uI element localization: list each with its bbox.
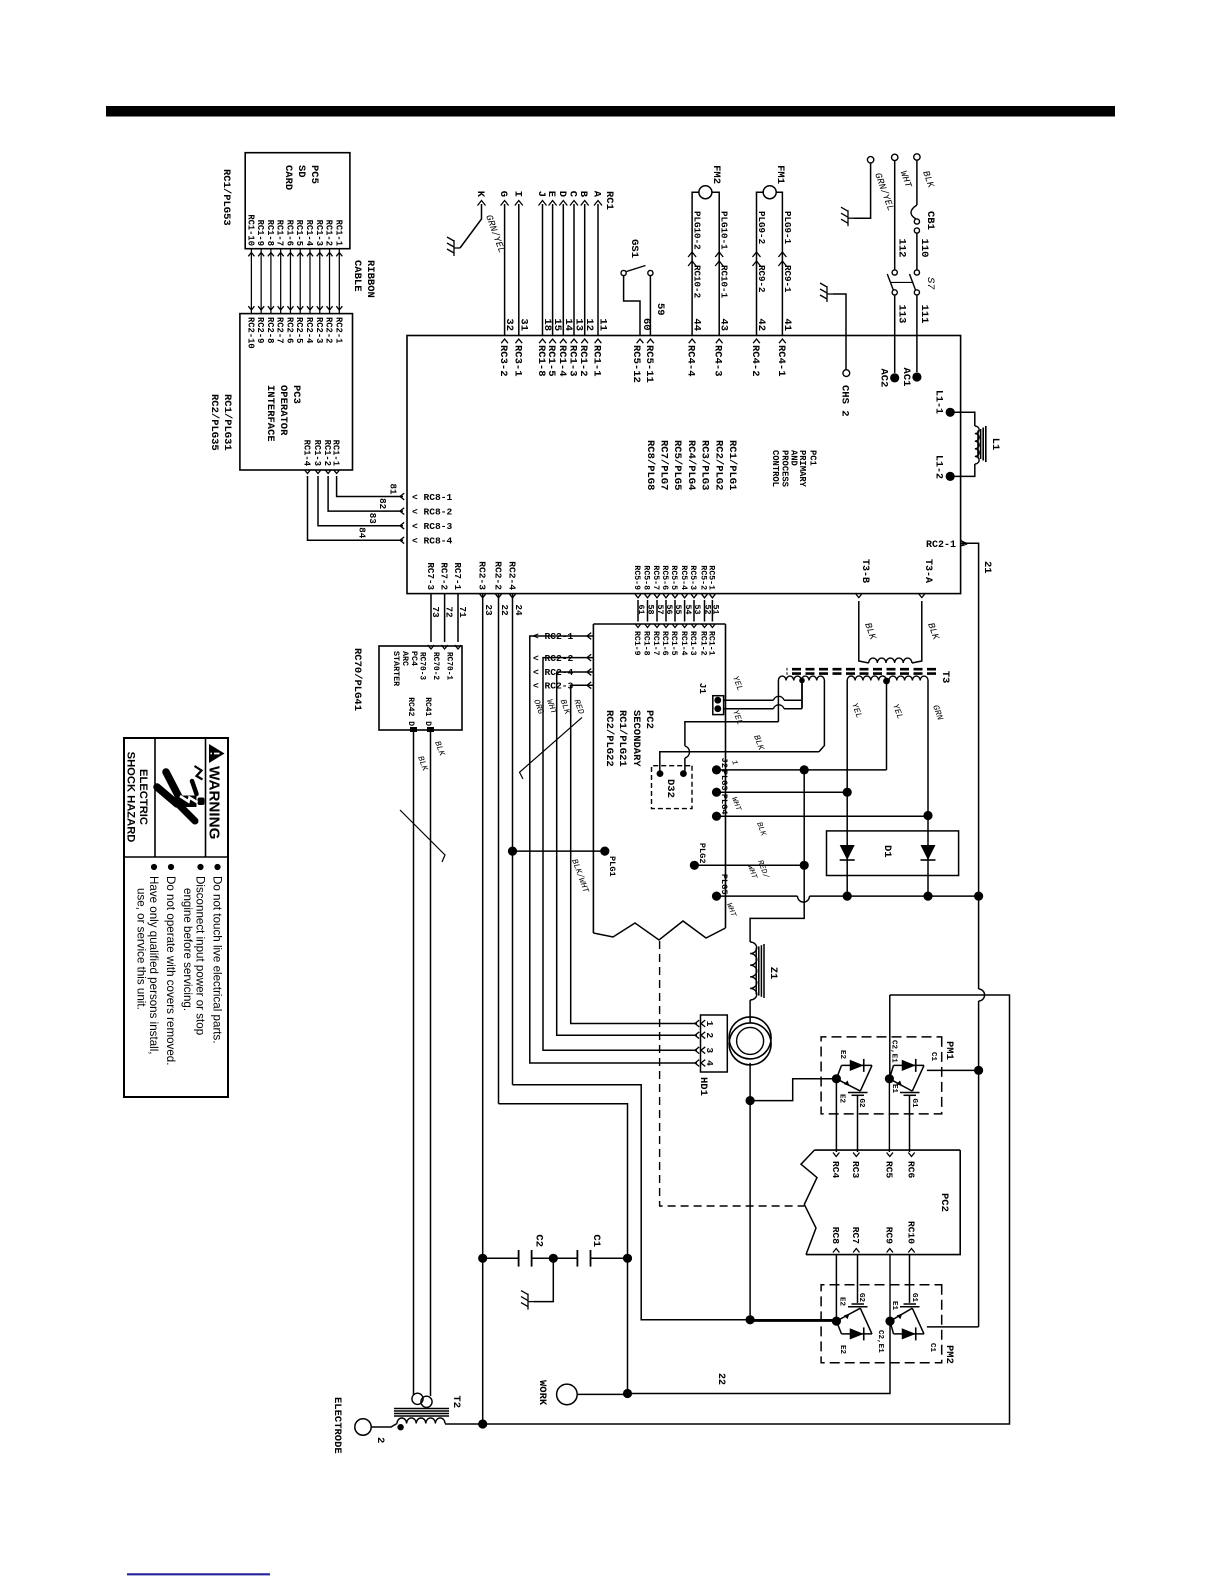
connector J1 [713, 696, 724, 715]
svg-text:RC8/PLG8: RC8/PLG8 [644, 440, 656, 490]
wire PM1 E2 feed [750, 1079, 836, 1101]
T2 core [394, 1408, 449, 1410]
svg-text:SECONDARY: SECONDARY [630, 710, 642, 767]
svg-text:< RC2-3: < RC2-3 [533, 680, 574, 691]
terminal PLG2 [690, 861, 699, 870]
svg-text:32: 32 [503, 318, 515, 331]
terminal WORK [557, 1384, 578, 1405]
svg-text:BLK: BLK [432, 740, 447, 759]
svg-text:112: 112 [896, 239, 908, 258]
svg-text:G: G [497, 191, 509, 197]
svg-text:42: 42 [755, 318, 767, 331]
wire BLK winding1 top to D32 [819, 681, 824, 752]
svg-text:E2: E2 [838, 1050, 846, 1060]
transistor IGBT PM2 Q2 [894, 1333, 925, 1335]
svg-text:RC9-1: RC9-1 [782, 265, 793, 293]
page header black bar [106, 106, 1115, 117]
terminal ELECTRODE [355, 1419, 371, 1435]
svg-text:CHS 2: CHS 2 [839, 385, 851, 417]
svg-text:CABLE: CABLE [351, 260, 363, 292]
svg-text:E2: E2 [838, 1094, 846, 1104]
svg-text:use, or service this unit.: use, or service this unit. [135, 888, 148, 1010]
svg-text:S7: S7 [924, 277, 936, 290]
svg-text:RC2-1 >: RC2-1 > [926, 540, 968, 551]
svg-text:SHOCK HAZARD: SHOCK HAZARD [125, 752, 137, 843]
svg-text:RC4-1: RC4-1 [775, 345, 787, 377]
svg-text:73: 73 [430, 606, 441, 618]
terminal AC1 [912, 372, 921, 381]
svg-text:24: 24 [513, 604, 524, 616]
svg-text:WHT: WHT [745, 864, 757, 880]
wire G1 to RC6 [909, 1095, 911, 1152]
svg-text:PLG2: PLG2 [697, 843, 707, 864]
wire 31 I to RC3-1 [518, 204, 520, 336]
wire YEL center tap [886, 681, 888, 770]
svg-text:84: 84 [357, 527, 368, 539]
svg-text:44: 44 [691, 318, 703, 331]
svg-text:83: 83 [367, 513, 378, 525]
svg-text:J1: J1 [697, 683, 708, 695]
PC2 part2 break edge [801, 1150, 817, 1255]
junction WORK/wire22 [623, 1389, 632, 1398]
shock hazard icon [157, 772, 197, 821]
svg-text:RC4/PLG4: RC4/PLG4 [685, 440, 697, 490]
wire WHT PLG3 net [717, 791, 848, 793]
svg-text:BLK: BLK [415, 755, 430, 774]
wire 14 D to RC1-4 [562, 204, 564, 336]
terminal J2 [712, 765, 721, 774]
junction wire23/output bus [478, 1419, 487, 1428]
diode D1 element at y=296 [927, 816, 929, 896]
svg-text:< RC8-4: < RC8-4 [412, 536, 453, 547]
cable slash marker [520, 717, 583, 779]
wire 1 J2 net [717, 769, 887, 771]
diode module D32 [652, 766, 693, 809]
T2 secondary [397, 1418, 445, 1424]
svg-text:YEL: YEL [849, 702, 864, 720]
svg-text:82: 82 [377, 498, 388, 509]
svg-text:Do not operate with covers rem: Do not operate with covers removed. [164, 876, 177, 1065]
svg-text:RC1-1: RC1-1 [591, 345, 603, 377]
wire to PM2 E2 node [749, 1101, 751, 1320]
svg-text:PROCESS: PROCESS [780, 450, 790, 487]
svg-text:E2: E2 [838, 1297, 846, 1307]
wire BLK/WHT to PLG1 [513, 850, 605, 852]
svg-text:59: 59 [654, 303, 666, 316]
capacitor C1 [553, 1257, 577, 1259]
terminal GRN/YEL input with ground [867, 157, 873, 163]
terminal PLG5 [712, 892, 721, 901]
svg-text:BLK: BLK [920, 169, 937, 190]
svg-text:Do not touch live electrical p: Do not touch live electrical parts. [211, 876, 224, 1044]
power module PM2 dashed box [821, 1285, 942, 1363]
svg-text:BLK: BLK [751, 734, 766, 753]
T3 winding1 center tap to J1 [799, 678, 805, 684]
svg-text:RC2-1: RC2-1 [333, 317, 343, 343]
svg-text:J: J [535, 191, 547, 197]
ground (input GRN/YEL) [841, 207, 854, 226]
svg-text:72: 72 [444, 606, 455, 618]
svg-text:PM1: PM1 [943, 1041, 955, 1060]
svg-text:C1: C1 [590, 1234, 602, 1247]
junction J2/Z1 feed [800, 765, 809, 774]
ground (RC1-K) [447, 237, 460, 256]
svg-text:RC1: RC1 [603, 191, 615, 210]
svg-text:PC2: PC2 [643, 710, 655, 729]
svg-text:I: I [511, 191, 523, 197]
terminal L1-2 [946, 472, 955, 481]
wire G2 to RC7 [857, 1255, 859, 1303]
svg-text:STARTER: STARTER [391, 651, 401, 687]
svg-text:T2: T2 [450, 1395, 462, 1408]
svg-text:G1: G1 [910, 1293, 918, 1303]
svg-text:RC1-4: RC1-4 [304, 220, 314, 247]
wire BLK PC4 RC42 to T2 [413, 730, 415, 1395]
svg-text:RC2-7: RC2-7 [275, 317, 285, 343]
svg-text:BLK: BLK [862, 621, 879, 642]
transistor IGBT PM1 Q2 [894, 1064, 925, 1066]
junction Z1 out / PM1 E2 [746, 1096, 755, 1105]
svg-text:4: 4 [704, 1060, 715, 1066]
svg-text:RC1-5: RC1-5 [294, 220, 304, 246]
svg-text:RC5-9: RC5-9 [632, 565, 641, 590]
junction output / wire 21 [974, 892, 983, 901]
svg-text:RC7-3: RC7-3 [425, 562, 436, 590]
cable slash marker (BLK pair) [400, 810, 445, 862]
svg-text:Have only qualified persons in: Have only qualified persons install, [147, 876, 160, 1055]
J1 wires to tap with hops [724, 699, 774, 701]
svg-text:Disconnect input power or stop: Disconnect input power or stop [194, 876, 207, 1035]
svg-text:RC5-8: RC5-8 [642, 565, 651, 590]
wire YEL winding2 to D1 [846, 681, 848, 791]
Z1 core [763, 944, 765, 998]
node PM1 E2 [832, 1074, 841, 1083]
svg-text:RC2-3: RC2-3 [477, 561, 488, 590]
svg-text:PC3: PC3 [290, 385, 302, 404]
svg-text:RC2-4: RC2-4 [507, 561, 518, 590]
ground between caps [534, 1258, 553, 1301]
svg-text:RC10: RC10 [905, 1221, 916, 1244]
wire winding1 bottom to D32 [777, 681, 779, 722]
svg-text:T3-A: T3-A [922, 559, 933, 583]
svg-text:RC5-3: RC5-3 [688, 565, 697, 590]
wire RED/WHT PLG2 to Z1 feed [694, 864, 804, 866]
wire E2 to RC4 [835, 1079, 837, 1152]
PC2 part1 break edge [593, 921, 725, 940]
svg-text:RC2-10: RC2-10 [245, 317, 255, 349]
wire 44 PLG10-2 to RC4-4 [691, 204, 693, 336]
svg-text:RC1-7: RC1-7 [651, 631, 660, 656]
board PC2 SECONDARY box (part 1) [593, 623, 725, 625]
svg-text:1: 1 [729, 759, 738, 766]
svg-text:1: 1 [704, 1021, 715, 1027]
svg-text:RC1-9: RC1-9 [255, 220, 265, 246]
svg-text:D1: D1 [881, 845, 893, 858]
svg-text:RC10-2: RC10-2 [692, 265, 703, 298]
junction wire24/PLG1 [508, 847, 517, 856]
svg-text:GS1: GS1 [628, 239, 640, 258]
terminal WHT input [892, 154, 898, 160]
svg-text:22: 22 [499, 604, 510, 616]
svg-text:A: A [591, 191, 603, 198]
svg-text:RC1-3: RC1-3 [312, 440, 322, 466]
fan motor FM1 [763, 186, 776, 199]
svg-text:RC1/PLG31: RC1/PLG31 [221, 394, 233, 451]
svg-text:ELECTRIC: ELECTRIC [137, 769, 149, 825]
svg-text:RC6: RC6 [905, 1161, 916, 1179]
svg-text:RC7-2: RC7-2 [439, 562, 450, 590]
svg-text:GRN: GRN [930, 704, 945, 723]
svg-text:K: K [474, 191, 486, 198]
svg-text:RED: RED [571, 698, 586, 716]
svg-text:SD: SD [295, 165, 307, 178]
board PC2 box (part 2) [806, 1150, 960, 1255]
svg-text:J2: J2 [719, 758, 729, 768]
svg-text:AC1: AC1 [900, 368, 912, 387]
svg-text:C1: C1 [928, 1343, 936, 1353]
svg-text:PLG9-1: PLG9-1 [782, 211, 793, 245]
svg-text:YEL: YEL [730, 709, 745, 727]
svg-text:RC1-3: RC1-3 [688, 631, 697, 656]
svg-text:T3-B: T3-B [859, 559, 870, 583]
svg-text:PM2: PM2 [943, 1345, 955, 1364]
svg-text:RC7/PLG7: RC7/PLG7 [658, 440, 670, 490]
wire 43 PLG10-1 to RC4-3 [718, 204, 720, 336]
T3 primary lead BLK (B) [859, 601, 869, 663]
wire RED RC2-3 to HD1-1 [571, 685, 697, 1023]
svg-text:G1: G1 [910, 1099, 918, 1109]
svg-text:WARNING: WARNING [206, 766, 223, 839]
svg-text:71: 71 [457, 606, 468, 618]
svg-text:RC2/PLG2: RC2/PLG2 [712, 440, 724, 490]
svg-text:E1: E1 [890, 1084, 898, 1094]
wire PM1 C1 to bus 21 [927, 1069, 979, 1071]
wire WHT RC2-2 to HD1-3 [543, 658, 697, 1051]
svg-text:CB1: CB1 [924, 211, 936, 230]
svg-text:RC1-6: RC1-6 [660, 631, 669, 656]
svg-text:RC3/PLG3: RC3/PLG3 [699, 440, 711, 490]
svg-text:RC70/PLG41: RC70/PLG41 [351, 648, 363, 711]
fan motor FM2 [699, 186, 712, 199]
svg-text:C1: C1 [929, 1052, 937, 1062]
wire ORG RC2-1 to HD1-4 [530, 636, 697, 1063]
ribbon wire 5 [299, 249, 301, 314]
svg-text:RC8: RC8 [830, 1227, 841, 1245]
svg-text:RC1-2: RC1-2 [324, 220, 334, 246]
svg-text:RC1-7: RC1-7 [275, 220, 285, 246]
svg-text:RC7: RC7 [850, 1227, 861, 1245]
inductor Z1 [750, 942, 757, 1000]
wire 24 net [512, 594, 514, 1085]
ribbon wire 4 [309, 249, 311, 314]
svg-text:RC2-9: RC2-9 [255, 317, 265, 343]
wire E1 to RC9 [889, 1255, 891, 1322]
wire 11 A to RC1-1 [597, 204, 599, 336]
rectifier D1 box [827, 831, 959, 876]
svg-text:RC9-2: RC9-2 [756, 265, 767, 293]
wire G2 to RC3 [857, 1095, 859, 1152]
terminal L1-1 [946, 408, 955, 417]
T3 primary lead BLK (A) [912, 601, 922, 663]
svg-text:< RC8-1: < RC8-1 [412, 492, 453, 503]
wire G1 to RC10 [909, 1255, 911, 1303]
svg-text:WHT: WHT [898, 169, 915, 190]
circuit breaker CB1 [911, 205, 917, 219]
svg-text:RC2-3: RC2-3 [314, 317, 324, 343]
svg-text:L1-1: L1-1 [933, 390, 944, 414]
svg-text:22: 22 [715, 1373, 726, 1385]
svg-text:110: 110 [918, 239, 930, 258]
junction C1/wire22 [623, 1254, 632, 1263]
svg-text:PLG9-2: PLG9-2 [756, 211, 767, 244]
svg-text:RC1-8: RC1-8 [265, 220, 275, 246]
svg-text:41: 41 [781, 318, 793, 331]
board PC5 SD CARD box [245, 153, 350, 249]
wire 41 PLG9-1 to RC4-1 [781, 204, 783, 336]
svg-text:18: 18 [541, 318, 553, 331]
dashed PC2 board link [660, 941, 805, 1206]
svg-text:RC70-2: RC70-2 [431, 652, 439, 680]
board PC3 OPERATOR INTERFACE box [240, 314, 353, 470]
blue footer line [127, 1573, 270, 1575]
ribbon wire 2 [329, 249, 331, 314]
wire 18 J to RC1-8 [542, 204, 544, 336]
wire E1 to RC5 [888, 1079, 890, 1152]
svg-text:RC41 D: RC41 D [423, 697, 432, 726]
L1 core [985, 426, 987, 462]
wire 59 [649, 276, 651, 336]
wire PM2 C1 to bus 21 [927, 1326, 979, 1328]
svg-text:RC1-5: RC1-5 [669, 631, 678, 656]
svg-text:D32: D32 [664, 779, 676, 798]
svg-text:G2: G2 [857, 1099, 865, 1109]
T2 secondary dot [397, 1424, 403, 1430]
svg-text:RC1/PLG53: RC1/PLG53 [220, 169, 232, 226]
wire PM2 E2 to Z1 node [750, 1320, 836, 1322]
wire 60 [624, 276, 640, 336]
board PC4 ARC STARTER box [379, 646, 462, 730]
svg-text:RC1-8: RC1-8 [535, 345, 547, 377]
svg-text:WHT: WHT [729, 796, 741, 812]
svg-text:RC1-4: RC1-4 [679, 631, 688, 656]
svg-text:FM2: FM2 [710, 165, 722, 184]
T3 secondary winding 2 (YEL) [847, 676, 886, 681]
terminal BLK input [914, 154, 920, 160]
svg-text:< RC8-2: < RC8-2 [412, 506, 453, 517]
PC2 pins RC2-1,RC2-2,RC2-4,RC2-3 [587, 633, 591, 640]
ground (cap chain) [521, 1291, 534, 1310]
svg-text:54: 54 [683, 604, 693, 614]
junction wire24/Z1 out [746, 1315, 755, 1324]
svg-text:RC1-4: RC1-4 [302, 440, 312, 467]
wire BLK PLG4 net [717, 815, 929, 817]
wire to electrode [371, 1424, 397, 1428]
svg-text:RC1-2: RC1-2 [322, 440, 332, 466]
svg-text:C2: C2 [533, 1234, 545, 1247]
ribbon wire 8 [270, 249, 272, 314]
node PM2 C2,E1 [885, 1317, 894, 1326]
warning label box [124, 738, 228, 1097]
svg-text:RC3-2: RC3-2 [497, 345, 509, 377]
svg-text:BLK: BLK [754, 821, 766, 837]
ribbon wire 6 [289, 249, 291, 314]
wire BLK PC4 RC41 to T2 [430, 730, 432, 1396]
svg-text:RIBBON: RIBBON [364, 260, 376, 298]
wire K GRN/YEL to ground [460, 204, 482, 248]
svg-text:YEL: YEL [890, 703, 905, 721]
svg-text:PLG10-1: PLG10-1 [719, 211, 730, 250]
ribbon wire 3 [319, 249, 321, 314]
transformer T3 [918, 593, 925, 598]
transistor IGBT PM1 Q1 [842, 1064, 873, 1066]
diode D1 element at y=376.8 [846, 791, 848, 896]
connector HD1 [701, 1015, 728, 1072]
svg-text:RC5/PLG5: RC5/PLG5 [671, 440, 683, 490]
chassis terminal CHS 2 [820, 283, 833, 302]
wire 32 G to RC3-2 [504, 204, 506, 336]
ribbon wire 9 [260, 249, 262, 314]
svg-text:Z1: Z1 [767, 967, 779, 980]
wire 13 C to RC1-3 [573, 204, 575, 336]
Z1 feed wire [750, 770, 804, 942]
svg-text:PLG4: PLG4 [719, 794, 729, 815]
svg-text:61: 61 [636, 604, 646, 614]
svg-text:RC3-1: RC3-1 [511, 345, 523, 377]
svg-text:RC4-4: RC4-4 [685, 345, 697, 377]
switch GS1 [648, 270, 653, 275]
wire BLK RC2-4 to HD1-2 [557, 672, 697, 1035]
terminal PLG1 [600, 847, 609, 856]
svg-text:T3: T3 [939, 671, 951, 684]
node PM2 E2 [832, 1317, 841, 1326]
svg-text:RC5-5: RC5-5 [669, 565, 678, 590]
svg-text:PLG1: PLG1 [607, 856, 617, 877]
svg-text:RC7-1: RC7-1 [452, 562, 463, 590]
svg-text:GRN/YEL: GRN/YEL [483, 213, 507, 254]
T3 center tap junction [883, 678, 890, 685]
ribbon wire 10 [250, 249, 252, 314]
svg-text:YEL: YEL [730, 675, 745, 693]
svg-text:2: 2 [374, 1437, 386, 1443]
T3 core [787, 668, 937, 671]
terminal AC2 [890, 373, 899, 382]
switch S7 pole 2 [892, 270, 897, 275]
svg-text:PLG10-2: PLG10-2 [692, 211, 703, 250]
terminal PLG3 [712, 788, 721, 797]
svg-text:RC2-2: RC2-2 [324, 317, 334, 343]
svg-text:2: 2 [704, 1032, 715, 1038]
wire 21 bus [978, 1001, 980, 1327]
svg-text:RC2-8: RC2-8 [265, 317, 275, 343]
svg-text:RC10-1: RC10-1 [719, 265, 730, 299]
svg-text:RC42 D: RC42 D [406, 697, 415, 726]
svg-text:RC70-1: RC70-1 [445, 652, 453, 680]
ribbon wire 1 [338, 249, 340, 314]
node PM1 C2,E1 [885, 1074, 894, 1083]
svg-text:RC1-6: RC1-6 [284, 220, 294, 246]
transistor IGBT PM2 Q1 [842, 1333, 873, 1335]
svg-text:RC5: RC5 [884, 1161, 895, 1179]
svg-text:111: 111 [918, 305, 930, 324]
terminal PLG4 [712, 812, 721, 821]
wire 22 net [498, 594, 500, 1104]
pin RC2-1 / wire 21 [960, 540, 965, 547]
junction D1 diode2 output [923, 892, 932, 901]
svg-text:21: 21 [981, 561, 993, 574]
svg-text:RC1/PLG21: RC1/PLG21 [616, 710, 628, 767]
svg-text:OPERATOR: OPERATOR [277, 385, 289, 436]
ribbon wire 7 [280, 249, 282, 314]
